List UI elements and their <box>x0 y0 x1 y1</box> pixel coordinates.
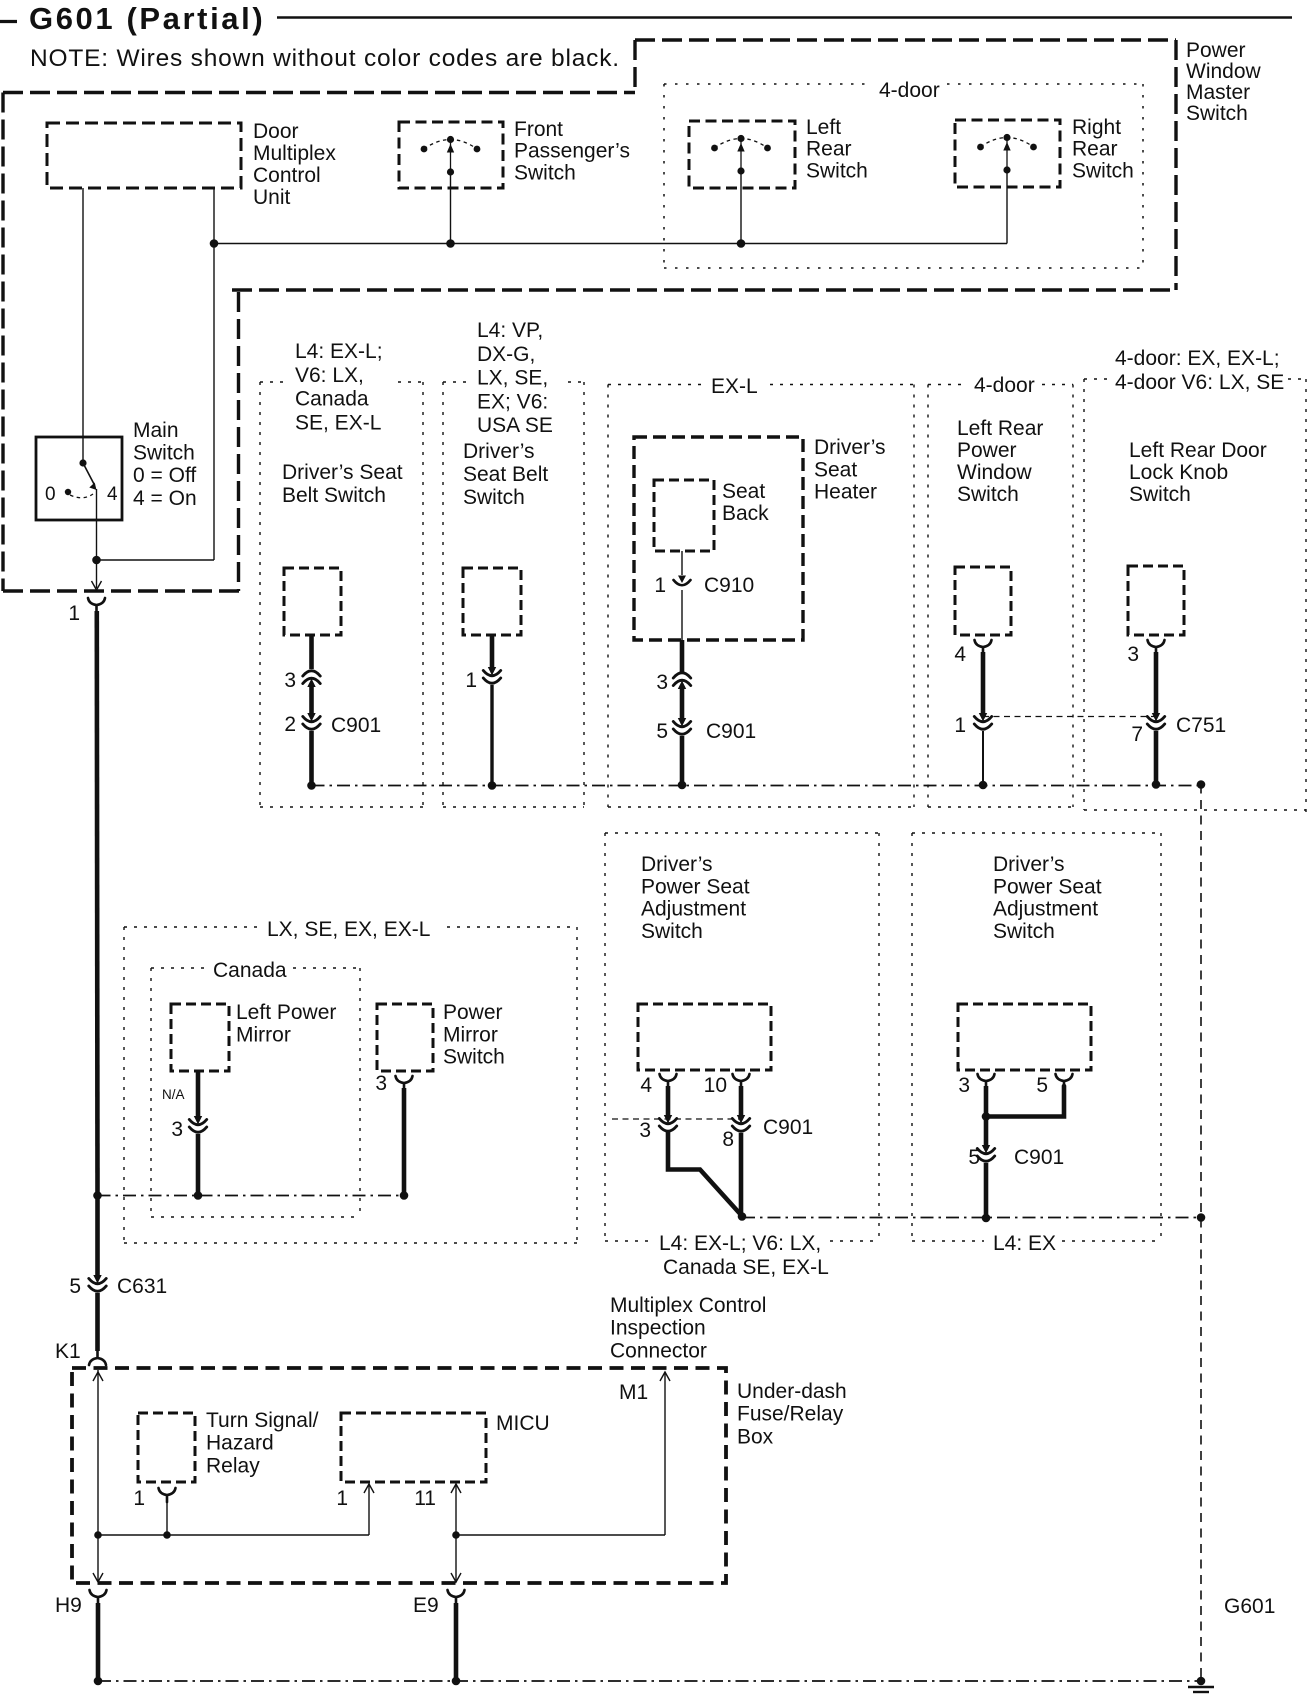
svg-text:E9: E9 <box>413 1594 439 1617</box>
junction K1 wire at relay bus <box>94 1531 102 1539</box>
svg-text:Mirror: Mirror <box>443 1023 498 1046</box>
svg-text:Driver’s: Driver’s <box>463 440 535 463</box>
wire seat belt 2 upper <box>490 635 495 669</box>
connector power mirror switch <box>377 1004 433 1071</box>
wire LRPW upper <box>981 652 986 715</box>
svg-text:Switch: Switch <box>514 161 576 184</box>
wire main switch output to bus <box>97 489 215 588</box>
svg-text:Adjustment: Adjustment <box>641 898 746 921</box>
right rear switch contacts <box>977 134 1037 174</box>
door multiplex control unit U1 <box>47 123 241 188</box>
variant label L4 VP DX-G LX SE EX V6 USA SE <box>477 319 553 437</box>
svg-text:L4: VP,: L4: VP, <box>477 319 543 342</box>
G601 ground wire (dashed) <box>1200 785 1202 1682</box>
ground bus wire (dash-dot) <box>312 785 1202 787</box>
svg-text:Power Seat: Power Seat <box>641 875 750 898</box>
C901 label seat belt 1 <box>331 714 381 737</box>
junction ground at G601 <box>1197 1677 1206 1686</box>
svg-text:Canada: Canada <box>295 388 369 411</box>
fork pin 10 seat1 <box>733 1074 750 1088</box>
C751 link line (dashed) <box>983 716 1157 718</box>
wire front passenger switch drop <box>450 172 452 244</box>
junction MICU pin 11 at bus <box>452 1531 460 1539</box>
fork pin 4 seat1 <box>660 1074 677 1088</box>
power mirror switch label <box>443 1001 505 1069</box>
wire LRDL upper <box>1154 652 1159 715</box>
wire relay pin 1 down <box>166 1501 168 1535</box>
wire relay bus right <box>456 1534 665 1536</box>
wire seat2 pin5 L-shape <box>986 1086 1064 1117</box>
MICU pin 1 label <box>336 1487 348 1510</box>
junction seat2 pins <box>982 1112 991 1121</box>
svg-text:4: 4 <box>107 484 118 505</box>
wire M1 riser <box>660 1372 670 1535</box>
svg-text:Connector: Connector <box>610 1339 707 1362</box>
svg-text:3: 3 <box>171 1118 183 1141</box>
svg-text:Switch: Switch <box>133 442 195 465</box>
connector pair pin 3 seat1 (down) <box>659 1115 676 1131</box>
junction seat2 at seat bus <box>982 1214 991 1223</box>
svg-text:LX, SE, EX, EX-L: LX, SE, EX, EX-L <box>267 918 430 941</box>
right rear switch S4 <box>955 120 1060 187</box>
svg-text:Turn Signal/: Turn Signal/ <box>206 1409 319 1432</box>
svg-text:EX; V6:: EX; V6: <box>477 390 548 413</box>
wire seat1 left upper <box>666 1086 671 1118</box>
svg-text:Switch: Switch <box>806 159 868 182</box>
svg-text:Relay: Relay <box>206 1454 260 1477</box>
variant box power seat 1 (dotted) <box>605 833 879 1241</box>
svg-text:H9: H9 <box>55 1594 82 1617</box>
C751 label <box>1176 714 1226 737</box>
svg-text:Door: Door <box>253 120 299 143</box>
wire heater out upper <box>680 640 685 672</box>
connector pair pin 8 seat1 (down) <box>732 1115 749 1131</box>
svg-text:L4: EX: L4: EX <box>993 1232 1056 1255</box>
svg-text:G601 (Partial): G601 (Partial) <box>29 1 265 36</box>
svg-text:Left Rear: Left Rear <box>957 417 1043 440</box>
wire seat2 pin3 down <box>984 1086 989 1148</box>
multiplex control inspection connector label <box>610 1294 766 1362</box>
svg-text:Driver’s: Driver’s <box>641 853 713 876</box>
EX-L label <box>711 375 758 398</box>
MICU box <box>341 1413 486 1482</box>
connector pair C631 (down) <box>89 1275 106 1291</box>
N/A label <box>162 1087 185 1102</box>
svg-text:G601: G601 <box>1224 1595 1275 1618</box>
svg-text:3: 3 <box>656 671 668 694</box>
connector pair pin 3 (up) <box>303 671 320 687</box>
ground symbol G601 <box>1188 1687 1214 1695</box>
wire LRDL lower <box>1154 731 1159 785</box>
wire MCU to main switch <box>82 188 84 463</box>
connector pair pin 2 C901 (down) <box>303 713 320 729</box>
turn signal hazard relay box <box>138 1413 195 1482</box>
wire MICU pin 11 <box>451 1484 461 1535</box>
svg-text:5: 5 <box>968 1146 980 1169</box>
svg-text:4-door V6: LX, SE: 4-door V6: LX, SE <box>1115 371 1284 394</box>
junction LRDL at ground bus <box>1152 780 1161 789</box>
connector pair pin 7 C751 (down) <box>1147 713 1164 729</box>
wire relay bus left <box>98 1534 369 1536</box>
svg-text:Main: Main <box>133 419 179 442</box>
svg-text:Switch: Switch <box>641 920 703 943</box>
svg-text:C901: C901 <box>1014 1146 1064 1169</box>
front passenger's switch S2 <box>399 122 503 188</box>
power window master switch label <box>1186 39 1262 125</box>
svg-text:1: 1 <box>336 1487 348 1510</box>
connector power seat 1 <box>638 1004 771 1070</box>
variant box power seat 2 (dotted) <box>912 833 1161 1241</box>
svg-text:Mirror: Mirror <box>236 1023 291 1046</box>
fork relay pin 1 (up) <box>159 1488 176 1502</box>
junction relay pin at bus <box>163 1531 171 1539</box>
wire H9 exit inside <box>93 1535 103 1582</box>
left rear switch S3 <box>689 121 795 188</box>
4-door label <box>879 79 940 102</box>
junction seat1 at seat bus <box>738 1212 747 1221</box>
wire seat1 right upper <box>739 1086 744 1118</box>
junction seat belt 1 at ground bus <box>307 781 316 790</box>
svg-text:4 = On: 4 = On <box>133 487 197 510</box>
front passenger's switch contacts <box>421 136 481 176</box>
svg-text:5: 5 <box>1036 1074 1048 1097</box>
fork pin 3 LRDL <box>1148 640 1165 654</box>
pin 3 label <box>284 669 296 692</box>
wire K1 inside box <box>93 1370 103 1535</box>
svg-text:3: 3 <box>639 1119 651 1142</box>
under-dash fuse/relay box <box>72 1368 726 1583</box>
svg-text:LX, SE,: LX, SE, <box>477 367 548 390</box>
wire MCU drop to bus <box>213 188 215 560</box>
connector pair pin 1 (down) <box>483 667 500 683</box>
pin 1 label C910 <box>654 574 666 597</box>
wire C631 to K1 <box>95 1293 100 1351</box>
svg-text:C751: C751 <box>1176 714 1226 737</box>
wire MICU pin 1 <box>364 1484 374 1535</box>
fork pin 5 seat2 <box>1056 1074 1073 1088</box>
svg-text:Left Rear Door: Left Rear Door <box>1129 439 1267 462</box>
svg-text:Adjustment: Adjustment <box>993 898 1098 921</box>
left rear switch contacts <box>711 135 771 175</box>
connector pair pin 1 C910 (down) <box>674 576 691 586</box>
connector pair pin 3 mirror (down) <box>189 1116 206 1132</box>
svg-text:7: 7 <box>1131 723 1143 746</box>
pin 3 label seat1 <box>639 1119 651 1142</box>
wire right rear switch drop <box>1006 170 1008 244</box>
svg-text:Power: Power <box>957 439 1017 462</box>
svg-text:Rear: Rear <box>1072 138 1118 161</box>
svg-text:Lock Knob: Lock Knob <box>1129 461 1228 484</box>
C901 label seat1 <box>763 1116 813 1139</box>
svg-text:Switch: Switch <box>443 1046 505 1069</box>
connector driver's seat belt switch 2 <box>463 568 521 635</box>
variant box 4-door EX EX-L lock knob (dotted) <box>1084 379 1306 819</box>
main switch position 0 label <box>45 484 56 505</box>
wire C910 to heater edge <box>681 590 683 640</box>
svg-text:N/A: N/A <box>162 1087 185 1102</box>
wire main feed to C631 <box>95 1196 100 1278</box>
pin 1 label seat belt 2 <box>465 669 477 692</box>
seat bus wire (dash-dot) <box>742 1217 1201 1219</box>
pin 5 label C631 <box>69 1275 81 1298</box>
svg-text:K1: K1 <box>55 1340 81 1363</box>
svg-text:3: 3 <box>284 669 296 692</box>
variant box 4-door left rear power window switch (dotted) <box>928 385 1073 808</box>
H9 label <box>55 1594 82 1617</box>
connector pair pin 1 LRPW (down) <box>974 713 991 729</box>
svg-text:SE, EX-L: SE, EX-L <box>295 411 381 434</box>
svg-text:1: 1 <box>68 602 80 625</box>
svg-text:Seat: Seat <box>814 458 857 481</box>
svg-text:Under-dash: Under-dash <box>737 1380 847 1403</box>
svg-text:5: 5 <box>69 1275 81 1298</box>
svg-text:Window: Window <box>1186 60 1262 83</box>
fork pin 3 power mirror switch <box>396 1076 413 1090</box>
fork pin 3 seat2 <box>978 1074 995 1088</box>
svg-text:0 = Off: 0 = Off <box>133 464 196 487</box>
pin 1 label <box>68 602 80 625</box>
G601 label <box>1224 1595 1275 1618</box>
pin 3 label LRDL <box>1127 643 1139 666</box>
svg-text:Window: Window <box>957 461 1033 484</box>
svg-text:V6: LX,: V6: LX, <box>295 364 364 387</box>
MICU pin 11 label <box>414 1487 436 1510</box>
junction LRPW at ground bus <box>979 781 988 790</box>
svg-text:Unit: Unit <box>253 186 291 209</box>
wire seat back to C910 <box>681 551 683 575</box>
svg-text:NOTE: Wires shown without colo: NOTE: Wires shown without color codes ar… <box>30 45 620 72</box>
wire left power mirror lower <box>196 1134 201 1196</box>
svg-text:Switch: Switch <box>993 920 1055 943</box>
junction power mirror switch at mirror bus <box>400 1191 409 1200</box>
svg-text:4-door: EX, EX-L;: 4-door: EX, EX-L; <box>1115 347 1280 370</box>
svg-text:Left: Left <box>806 116 841 139</box>
svg-text:Switch: Switch <box>1072 159 1134 182</box>
pin 7 label <box>1131 723 1143 746</box>
svg-text:8: 8 <box>722 1128 734 1151</box>
door multiplex control unit label <box>253 120 336 209</box>
svg-text:Switch: Switch <box>1186 102 1248 125</box>
fork H9 (up) <box>90 1590 107 1604</box>
svg-text:Fuse/Relay: Fuse/Relay <box>737 1403 844 1426</box>
svg-text:Rear: Rear <box>806 138 852 161</box>
wire main feed (thick) <box>95 611 100 1195</box>
svg-text:3: 3 <box>958 1074 970 1097</box>
driver's power seat adjustment switch label 2 <box>993 853 1102 943</box>
fork K1 (down) <box>89 1351 106 1365</box>
svg-text:3: 3 <box>375 1072 387 1095</box>
variant box Canada (dotted) <box>151 968 360 1217</box>
wire horizontal switch bus <box>214 243 1007 245</box>
svg-text:4: 4 <box>954 643 966 666</box>
LX SE EX EX-L label <box>267 918 430 941</box>
svg-text:4-door: 4-door <box>974 374 1035 397</box>
svg-text:C901: C901 <box>331 714 381 737</box>
relay pin 1 label <box>133 1487 145 1510</box>
right rear switch label <box>1072 116 1134 182</box>
M1 label <box>619 1381 648 1404</box>
svg-text:Switch: Switch <box>463 486 525 509</box>
wire seat1 left lower angled <box>668 1133 743 1217</box>
svg-text:Canada SE, EX-L: Canada SE, EX-L <box>663 1256 829 1279</box>
main switch position 4 label <box>107 484 118 505</box>
bottom ground bus wire (dash-dot) <box>98 1680 1201 1682</box>
left rear power window switch label <box>957 417 1043 506</box>
C901 label seat2 <box>1014 1146 1064 1169</box>
variant label L4 EX-L V6 LX Canada SE EX-L bottom <box>659 1232 829 1279</box>
junction G601 top <box>1197 780 1206 789</box>
variant label L4 EX bottom <box>993 1232 1056 1255</box>
svg-text:Switch: Switch <box>957 483 1019 506</box>
wire H9 to ground bus (thick) <box>96 1603 101 1681</box>
junction heater at ground bus <box>678 781 687 790</box>
junction main switch output <box>92 556 101 565</box>
mirror bus wire (dash-dot) <box>98 1195 409 1197</box>
left power mirror label <box>236 1001 336 1046</box>
svg-text:1: 1 <box>465 669 477 692</box>
title G601 (Partial) <box>0 1 1292 36</box>
driver's seat belt switch label 1 <box>282 461 403 507</box>
svg-text:10: 10 <box>704 1074 727 1097</box>
svg-text:Multiplex: Multiplex <box>253 142 336 165</box>
svg-text:4-door: 4-door <box>879 79 940 102</box>
fork pin 4 <box>975 640 992 654</box>
variant label L4 EX-L V6 LX Canada SE EX-L <box>295 340 383 434</box>
fork E9 (up) <box>448 1590 465 1604</box>
svg-text:Master: Master <box>1186 81 1250 104</box>
wire seat2 lower <box>984 1163 989 1218</box>
svg-text:EX-L: EX-L <box>711 375 758 398</box>
variant box L4 VP DX-G seat belt switch (dotted) <box>443 382 584 807</box>
pin 2 label <box>284 713 296 736</box>
under-dash fuse/relay box label <box>737 1380 847 1448</box>
pin 1 label LRPW <box>954 714 966 737</box>
variant box L4 EX-L seat belt switch (dotted) <box>260 382 423 807</box>
connector power seat 2 <box>958 1004 1091 1070</box>
main switch S1 <box>36 437 122 520</box>
svg-text:Right: Right <box>1072 116 1121 139</box>
C631 label <box>117 1275 167 1298</box>
note text <box>30 45 620 72</box>
svg-text:Passenger’s: Passenger’s <box>514 140 630 163</box>
svg-text:3: 3 <box>1127 643 1139 666</box>
E9 label <box>413 1594 439 1617</box>
connector pair pin 3 heater (up) <box>673 673 690 689</box>
svg-text:Power Seat: Power Seat <box>993 875 1102 898</box>
main switch arm and contacts <box>65 459 97 497</box>
junction G601 at seat bus <box>1197 1213 1206 1222</box>
connector fork pin 1 of master switch <box>88 598 105 612</box>
variant box EX-L seat heater (dotted) <box>608 385 914 808</box>
svg-text:1: 1 <box>954 714 966 737</box>
wire power mirror switch <box>402 1088 407 1196</box>
svg-text:L4: EX-L;: L4: EX-L; <box>295 340 383 363</box>
svg-text:1: 1 <box>133 1487 145 1510</box>
wire left power mirror upper <box>196 1071 201 1118</box>
junction E9 at ground bus <box>452 1677 461 1686</box>
left rear door lock knob switch label <box>1129 439 1267 506</box>
svg-text:Seat: Seat <box>722 480 765 503</box>
svg-text:C910: C910 <box>704 574 754 597</box>
pin 5 label seat2 lower <box>968 1146 980 1169</box>
connector left power mirror <box>171 1004 229 1071</box>
junction H9 at ground bus <box>94 1677 103 1686</box>
connector driver's seat belt switch 1 <box>284 568 341 635</box>
seat back box <box>654 480 714 551</box>
wire seat belt 1 upper <box>309 635 314 669</box>
variant box LX SE EX EX-L (dotted) <box>124 927 577 1243</box>
junction front passenger drop <box>446 239 455 248</box>
svg-text:DX-G,: DX-G, <box>477 343 535 366</box>
MICU label <box>496 1412 550 1435</box>
svg-text:Seat Belt: Seat Belt <box>463 463 548 486</box>
pin 4 label seat1 <box>640 1074 652 1097</box>
pin 4 label <box>954 643 966 666</box>
svg-text:M1: M1 <box>619 1381 648 1404</box>
left rear switch label <box>806 116 868 182</box>
driver's seat belt switch label 2 <box>463 440 548 509</box>
Canada label <box>213 959 287 982</box>
svg-text:Driver’s: Driver’s <box>993 853 1065 876</box>
wire seat belt 1 middle <box>309 686 314 715</box>
4-door dotted box (rear switches) <box>664 84 1143 268</box>
junction at MCU bus <box>210 239 219 248</box>
driver's power seat adjustment switch label 1 <box>641 853 750 943</box>
svg-text:Back: Back <box>722 502 769 525</box>
pin 5 label seat2 <box>1036 1074 1048 1097</box>
svg-text:Switch: Switch <box>1129 483 1191 506</box>
wire seat1 right lower <box>739 1133 744 1217</box>
wire seat belt 2 lower <box>490 685 493 786</box>
svg-text:Heater: Heater <box>814 481 877 504</box>
svg-text:Inspection: Inspection <box>610 1317 706 1340</box>
driver's seat heater box <box>634 437 803 640</box>
front passenger's switch label <box>514 118 630 184</box>
connector pair pin 5 C901 heater (down) <box>673 718 690 734</box>
K1 label <box>55 1340 81 1363</box>
C901 link line seat1 (dashed) <box>612 1118 741 1120</box>
svg-text:Power: Power <box>1186 39 1246 62</box>
pin 10 label seat1 <box>704 1074 727 1097</box>
pin 8 label seat1 <box>722 1128 734 1151</box>
main switch label <box>133 419 197 510</box>
junction mirror at mirror bus <box>194 1191 203 1200</box>
svg-text:Driver’s Seat: Driver’s Seat <box>282 461 403 484</box>
wire heater out lower <box>680 736 685 785</box>
svg-text:Belt Switch: Belt Switch <box>282 484 386 507</box>
wire E9 to ground bus (thick) <box>454 1603 459 1681</box>
pin 3 label power mirror switch <box>375 1072 387 1095</box>
driver's seat heater label <box>814 436 886 504</box>
main switch exit arrow <box>92 581 102 590</box>
power window master switch outline <box>3 40 1177 591</box>
connector pair pin 5 C901 seat2 (down) <box>977 1145 994 1161</box>
svg-text:Power: Power <box>443 1001 503 1024</box>
svg-text:4: 4 <box>640 1074 652 1097</box>
pin 3 label heater <box>656 671 668 694</box>
seat back label <box>722 480 769 525</box>
svg-text:Multiplex Control: Multiplex Control <box>610 1294 766 1317</box>
svg-text:C901: C901 <box>706 720 756 743</box>
svg-text:Canada: Canada <box>213 959 287 982</box>
variant label 4-door EX EX-L 4-door V6 LX SE <box>1115 347 1284 394</box>
connector left rear power window switch <box>955 567 1011 635</box>
pin 3 label mirror <box>171 1118 183 1141</box>
wire E9 exit inside <box>451 1535 461 1582</box>
connector left rear door lock knob switch <box>1128 566 1184 635</box>
svg-text:MICU: MICU <box>496 1412 550 1435</box>
svg-text:USA SE: USA SE <box>477 414 553 437</box>
